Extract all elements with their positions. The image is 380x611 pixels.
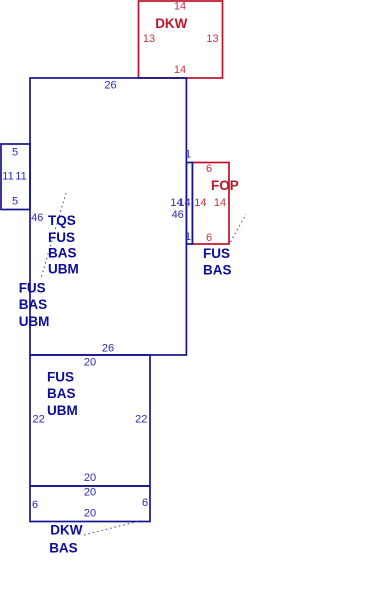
svg-text:14: 14 <box>174 64 186 76</box>
svg-text:5: 5 <box>12 196 18 208</box>
svg-text:DKW: DKW <box>155 16 187 31</box>
svg-text:20: 20 <box>84 356 96 368</box>
svg-text:20: 20 <box>84 486 96 498</box>
svg-text:1: 1 <box>185 149 191 161</box>
svg-text:14: 14 <box>174 1 186 13</box>
svg-text:BAS: BAS <box>19 297 48 312</box>
svg-text:BAS: BAS <box>49 541 78 556</box>
svg-text:DKW: DKW <box>50 522 82 537</box>
svg-text:FUS: FUS <box>48 230 75 245</box>
svg-text:26: 26 <box>102 343 114 355</box>
svg-text:6: 6 <box>206 232 212 244</box>
svg-text:BAS: BAS <box>203 263 232 278</box>
svg-text:6: 6 <box>206 163 212 175</box>
svg-text:14: 14 <box>178 197 190 209</box>
svg-text:14: 14 <box>194 197 206 209</box>
svg-text:1: 1 <box>185 231 191 243</box>
svg-text:UBM: UBM <box>48 262 79 277</box>
svg-text:FUS: FUS <box>19 281 46 296</box>
svg-text:6: 6 <box>142 497 148 509</box>
svg-text:20: 20 <box>84 472 96 484</box>
svg-text:46: 46 <box>31 212 43 224</box>
svg-text:UBM: UBM <box>47 403 78 418</box>
svg-text:BAS: BAS <box>47 386 76 401</box>
svg-text:UBM: UBM <box>19 314 50 329</box>
svg-text:20: 20 <box>84 508 96 520</box>
svg-text:13: 13 <box>143 33 155 45</box>
svg-text:11: 11 <box>2 171 13 183</box>
svg-text:14: 14 <box>214 197 226 209</box>
svg-text:13: 13 <box>206 33 218 45</box>
svg-text:6: 6 <box>32 499 38 511</box>
svg-text:11: 11 <box>15 171 26 183</box>
svg-text:BAS: BAS <box>48 246 77 261</box>
svg-text:26: 26 <box>104 80 116 92</box>
svg-text:5: 5 <box>12 147 18 159</box>
svg-text:46: 46 <box>172 209 184 221</box>
svg-text:TQS: TQS <box>48 213 76 228</box>
svg-text:FUS: FUS <box>203 246 230 261</box>
svg-text:FUS: FUS <box>47 370 74 385</box>
svg-text:22: 22 <box>32 413 44 425</box>
svg-text:22: 22 <box>135 413 147 425</box>
svg-text:FOP: FOP <box>211 178 239 193</box>
